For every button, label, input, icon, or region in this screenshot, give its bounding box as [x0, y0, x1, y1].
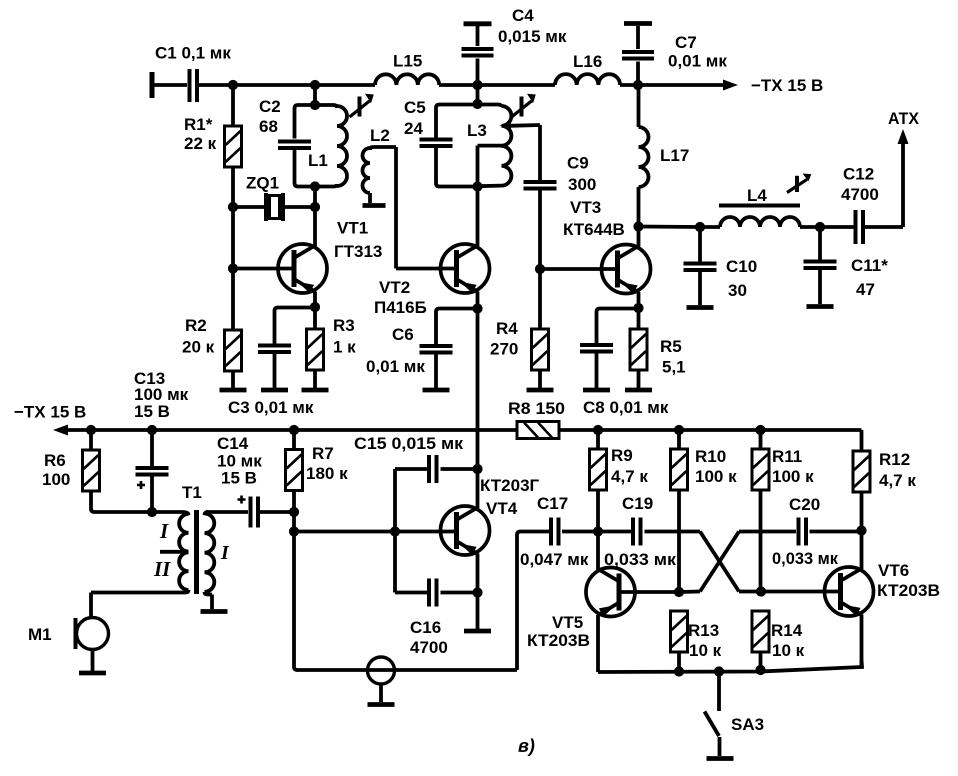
inductor L15: [375, 52, 439, 86]
node: [147, 507, 157, 517]
wire: [620, 83, 638, 87]
transistor VT3: [563, 198, 651, 294]
wire: [396, 147, 455, 269]
node: [472, 99, 482, 109]
svg-text:270: 270: [490, 340, 518, 359]
svg-text:180 к: 180 к: [306, 464, 348, 483]
svg-text:10 к: 10 к: [772, 641, 805, 660]
svg-text:R6: R6: [44, 451, 66, 470]
svg-text:АТХ: АТХ: [888, 109, 920, 128]
node: [674, 587, 684, 597]
capacitor C6: [366, 309, 478, 391]
transistor VT4: [441, 476, 540, 555]
capacitor C8: [580, 309, 669, 418]
svg-text:ГТ313: ГТ313: [334, 242, 382, 261]
svg-text:в): в): [518, 736, 535, 756]
wire: [313, 207, 317, 246]
jack socket: [368, 657, 395, 705]
node: [695, 222, 705, 232]
wire: [860, 615, 864, 668]
inductor L2: [363, 126, 397, 206]
node: [289, 526, 299, 536]
node: [310, 302, 320, 312]
wire: [393, 469, 397, 593]
svg-text:30: 30: [728, 281, 747, 300]
svg-text:R14: R14: [771, 621, 803, 640]
wire: [199, 83, 375, 87]
svg-text:L2: L2: [370, 126, 390, 145]
wire: [517, 532, 549, 671]
capacitor C4: [462, 6, 567, 85]
svg-text:0,01 мк: 0,01 мк: [668, 52, 727, 71]
svg-text:4700: 4700: [410, 638, 448, 657]
wire: [540, 267, 618, 271]
output arrow ATX: [888, 109, 920, 227]
node: [310, 80, 320, 90]
resistor R14: [752, 611, 805, 669]
svg-text:0,015 мк: 0,015 мк: [498, 27, 567, 46]
svg-text:R5: R5: [660, 337, 682, 356]
node: [755, 665, 765, 675]
resistor R9: [590, 430, 649, 532]
coil tap arrow: [500, 122, 541, 130]
svg-text:−ТХ 15 В: −ТХ 15 В: [14, 403, 86, 422]
svg-text:20 к: 20 к: [182, 338, 215, 357]
wire (cross coupling): [679, 532, 796, 593]
supply arrow -TX 15 V: [638, 76, 823, 95]
winding label II: [153, 557, 171, 581]
resistor R13: [671, 611, 722, 671]
svg-text:R7: R7: [312, 444, 334, 463]
wire: [292, 512, 296, 532]
node: [756, 586, 766, 596]
svg-text:4,7 к: 4,7 к: [611, 467, 648, 486]
svg-text:10 к: 10 к: [689, 641, 722, 660]
svg-text:100: 100: [42, 470, 70, 489]
node: [289, 507, 299, 517]
svg-text:КТ203В: КТ203В: [877, 581, 940, 600]
inductor L3: [467, 105, 511, 187]
node: [147, 425, 157, 435]
figure label: [518, 736, 535, 756]
wire: [476, 554, 480, 593]
resistor R2: [182, 316, 247, 390]
wire: [476, 187, 480, 247]
transistor VT1: [278, 219, 382, 294]
node: [535, 264, 545, 274]
wire (middle rail): [66, 428, 517, 432]
svg-text:C6: C6: [392, 325, 414, 344]
svg-text:C3 0,01 мк: C3 0,01 мк: [228, 398, 314, 417]
svg-text:0,033 мк: 0,033 мк: [772, 549, 838, 568]
svg-text:R2: R2: [185, 316, 207, 335]
svg-text:24: 24: [404, 119, 423, 138]
svg-text:VT1: VT1: [337, 219, 368, 238]
svg-text:II: II: [153, 557, 171, 581]
wire: [596, 615, 600, 672]
node: [633, 80, 643, 90]
svg-text:C9: C9: [567, 154, 589, 173]
wire: [637, 292, 641, 308]
adjuster arrow: [787, 174, 811, 193]
node: [472, 303, 482, 313]
transistor VT6: [825, 561, 941, 616]
node: [472, 80, 482, 90]
node: [310, 181, 320, 191]
inductor L16: [555, 52, 620, 85]
node: [390, 526, 400, 536]
node: [472, 464, 482, 474]
wire (VT4 base): [294, 530, 454, 534]
wire: [313, 85, 317, 105]
svg-text:R4: R4: [496, 319, 518, 338]
node: [593, 526, 603, 536]
capacitor C13: [134, 369, 189, 512]
svg-text:КТ644В: КТ644В: [563, 220, 625, 239]
svg-text:П416Б: П416Б: [374, 298, 427, 317]
resistor R4: [490, 269, 554, 390]
input terminal: [152, 72, 187, 98]
winding label I: [159, 519, 169, 543]
resistor R12: [853, 430, 916, 531]
svg-text:T1: T1: [182, 483, 202, 502]
svg-text:100 к: 100 к: [772, 467, 814, 486]
transistor VT2: [374, 244, 490, 317]
resistor R3: [302, 307, 357, 390]
svg-text:C19: C19: [622, 494, 653, 513]
node: [633, 303, 643, 313]
node: [674, 425, 684, 435]
svg-text:15 В: 15 В: [134, 402, 170, 421]
svg-text:M1: M1: [28, 625, 52, 644]
polarity plus: [238, 496, 246, 504]
wire: [313, 292, 317, 308]
inductor L1: [308, 105, 347, 187]
capacitor C5: [404, 98, 478, 187]
transformer T1: [91, 483, 248, 612]
wire: [233, 267, 294, 271]
svg-text:VT5: VT5: [552, 613, 583, 632]
svg-text:C11*: C11*: [851, 256, 888, 275]
winding label I (secondary): [220, 542, 230, 564]
capacitor C15: [354, 434, 478, 483]
capacitor C1: [155, 44, 231, 103]
svg-text:C7: C7: [675, 33, 697, 52]
svg-text:R8 150: R8 150: [508, 399, 565, 418]
svg-text:R10: R10: [695, 447, 726, 466]
node: [755, 425, 765, 435]
svg-text:4,7 к: 4,7 к: [879, 471, 916, 490]
svg-text:C8 0,01 мк: C8 0,01 мк: [583, 398, 669, 417]
capacitor C7: [622, 24, 727, 86]
capacitor C3: [228, 308, 315, 418]
svg-text:C16: C16: [410, 618, 441, 637]
resistor R8: [508, 399, 565, 439]
svg-text:R13: R13: [688, 621, 719, 640]
svg-text:C4: C4: [512, 6, 534, 25]
svg-text:R1*: R1*: [184, 115, 213, 134]
svg-text:0,047 мк: 0,047 мк: [520, 550, 589, 569]
adjuster arrow: [512, 94, 536, 117]
wire: [476, 85, 480, 104]
node: [714, 666, 724, 676]
capacitor C19: [598, 494, 677, 569]
svg-text:ZQ1: ZQ1: [246, 174, 279, 193]
svg-text:C10: C10: [726, 257, 757, 276]
resistor R5: [625, 308, 686, 390]
svg-text:R11: R11: [772, 447, 802, 466]
wire: [231, 167, 235, 330]
inductor L4: [700, 186, 820, 227]
svg-text:L15: L15: [393, 52, 422, 71]
node: [310, 202, 320, 212]
capacitor C12: [820, 165, 903, 245]
svg-text:L3: L3: [467, 121, 487, 140]
svg-text:1 к: 1 к: [333, 338, 356, 357]
svg-text:47: 47: [856, 280, 875, 299]
resistor R1: [184, 85, 242, 167]
node: [856, 525, 866, 535]
capacitor C10: [684, 227, 758, 308]
svg-text:КТ203Г: КТ203Г: [480, 476, 540, 495]
polarity plus: [137, 481, 145, 489]
switch SA3: [705, 672, 765, 759]
wire: [639, 227, 701, 247]
svg-text:VT6: VT6: [878, 561, 909, 580]
wire: [596, 532, 600, 571]
resistor R10: [671, 430, 738, 592]
svg-text:0,01 мк: 0,01 мк: [366, 357, 425, 376]
svg-text:VT4: VT4: [486, 499, 518, 518]
resistor R11: [752, 430, 814, 592]
svg-text:68: 68: [259, 117, 278, 136]
svg-text:L17: L17: [660, 146, 689, 165]
svg-text:C15 0,015 мк: C15 0,015 мк: [354, 434, 464, 453]
microphone M1: [28, 593, 109, 674]
node: [674, 666, 684, 676]
adjuster arrow: [350, 94, 374, 117]
svg-text:I: I: [220, 542, 230, 564]
svg-text:КТ203В: КТ203В: [527, 631, 590, 650]
node: [228, 202, 238, 212]
svg-text:300: 300: [568, 175, 596, 194]
svg-text:15 В: 15 В: [221, 469, 257, 488]
wire: [619, 590, 680, 594]
svg-text:L16: L16: [573, 52, 602, 71]
capacitor C16: [395, 579, 478, 658]
svg-text:C12: C12: [843, 165, 874, 184]
wire (cross coupling): [645, 532, 762, 592]
svg-text:C1 0,1 мк: C1 0,1 мк: [155, 44, 231, 63]
node: [228, 263, 238, 273]
svg-text:I: I: [159, 519, 169, 543]
node: [86, 425, 96, 435]
wire: [761, 590, 840, 594]
wire: [860, 531, 864, 570]
capacitor C2: [259, 97, 315, 187]
svg-text:C2: C2: [259, 97, 281, 116]
wire (to mic jack): [294, 532, 517, 671]
svg-text:C5: C5: [404, 98, 426, 117]
crystal ZQ1: [233, 174, 315, 222]
wire: [439, 83, 555, 87]
wire (VT2 emitter to VT4 collector): [476, 309, 480, 470]
svg-text:C20: C20: [789, 495, 820, 514]
capacitor C14: [217, 434, 294, 528]
svg-text:R3: R3: [333, 316, 355, 335]
ground: [464, 593, 491, 632]
resistor R7: [286, 430, 349, 512]
svg-text:100 к: 100 к: [695, 467, 737, 486]
wire: [476, 469, 480, 508]
node: [472, 587, 482, 597]
capacitor C11: [804, 227, 889, 307]
svg-text:VT3: VT3: [570, 198, 601, 217]
svg-text:−ТХ 15 В: −ТХ 15 В: [751, 76, 823, 95]
resistor R6: [42, 430, 152, 512]
svg-text:R12: R12: [879, 450, 910, 469]
svg-text:4700: 4700: [841, 185, 879, 204]
svg-text:L4: L4: [747, 186, 767, 205]
wire (bottom rail): [598, 660, 862, 672]
svg-text:C17: C17: [537, 494, 568, 513]
node: [633, 221, 643, 231]
node: [472, 181, 482, 191]
node: [815, 222, 825, 232]
node: [228, 80, 238, 90]
svg-text:L1: L1: [308, 151, 328, 170]
wire: [476, 292, 480, 309]
svg-text:C14: C14: [217, 434, 249, 453]
node: [289, 425, 299, 435]
svg-text:VT2: VT2: [379, 278, 410, 297]
supply arrow -TX 15 V (left): [14, 403, 86, 436]
capacitor C9: [524, 125, 597, 269]
svg-text:22 к: 22 к: [184, 134, 217, 153]
svg-text:SA3: SA3: [731, 715, 764, 734]
wire (middle rail right): [559, 428, 862, 432]
node: [593, 425, 603, 435]
transistor VT5 (left): [527, 568, 635, 651]
capacitor C20: [772, 495, 862, 568]
svg-text:R9: R9: [611, 446, 633, 465]
inductor L17: [639, 85, 690, 227]
node: [310, 100, 320, 110]
svg-text:5,1: 5,1: [662, 358, 686, 377]
wire: [313, 187, 317, 208]
capacitor C17: [520, 494, 598, 569]
